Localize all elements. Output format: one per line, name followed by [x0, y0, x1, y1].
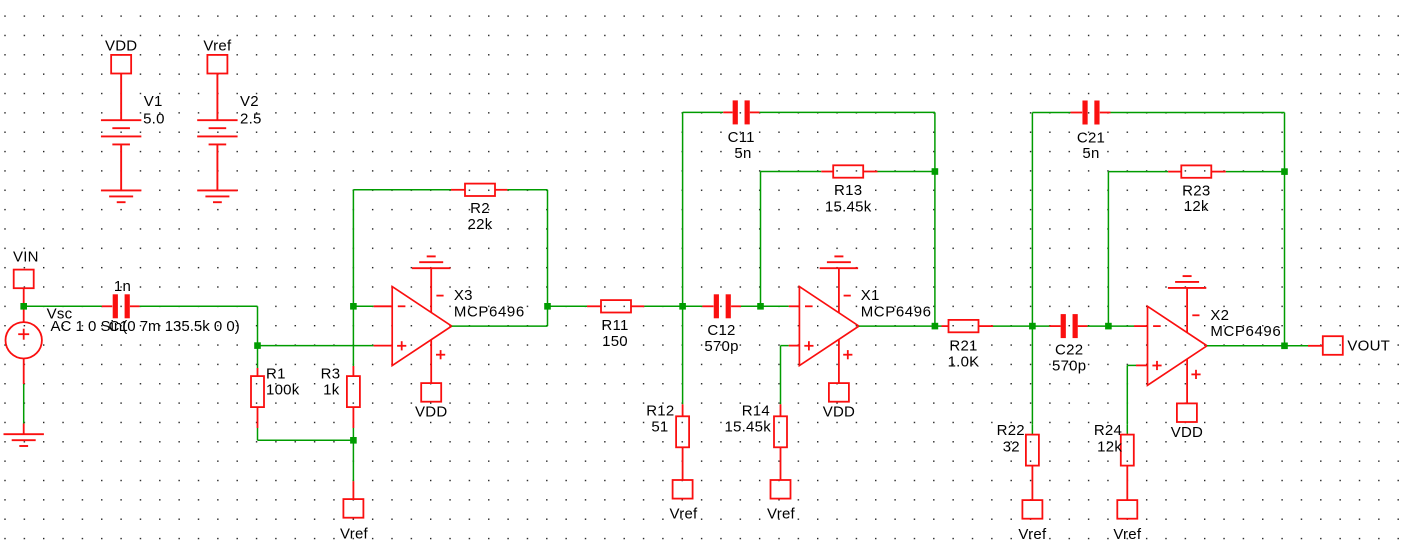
wire X2 plus elbow — [1127, 364, 1136, 366]
svg-text:C11: C11 — [728, 129, 755, 146]
wire R23 left lead — [1168, 171, 1181, 173]
wire R11 to C11 node — [644, 305, 702, 307]
capacitor C21 — [1082, 101, 1087, 125]
wire C11 top left — [683, 111, 724, 113]
wire R1 bottom pin — [257, 407, 259, 428]
wire C22 right lead — [1078, 325, 1088, 327]
wire C11 left lead — [723, 111, 732, 113]
svg-text:R23: R23 — [1182, 182, 1210, 199]
svg-text:R14: R14 — [742, 403, 770, 420]
svg-text:12k: 12k — [1184, 198, 1209, 215]
wire R12 top pin — [682, 404, 684, 416]
wire Vref port pin — [352, 481, 354, 499]
ground below Vsc — [4, 434, 44, 446]
svg-text:15.45k: 15.45k — [724, 419, 771, 436]
svg-text:C1: C1 — [109, 318, 129, 335]
wire X1 bottom supply pin — [838, 340, 840, 383]
svg-text:X1: X1 — [861, 287, 880, 304]
wire VIN node to C1 — [26, 305, 102, 307]
wire R3 bottom pin — [352, 407, 354, 428]
wire R2 left lead — [451, 189, 466, 191]
svg-text:C21: C21 — [1077, 129, 1105, 146]
op-amp X2 — [1148, 306, 1208, 385]
node C21 column junction — [1029, 323, 1036, 330]
wire feedback left vertical — [352, 190, 354, 306]
wire X1 output — [859, 325, 935, 327]
battery V2 — [197, 120, 237, 144]
port VDD at X2 — [1177, 403, 1197, 422]
wire X1 top supply pin — [838, 268, 840, 313]
wire R14 vertical — [780, 346, 782, 405]
wire R22 top pin — [1031, 425, 1033, 435]
wire R13 right lead — [863, 171, 877, 173]
X3 negative supply ground — [412, 256, 450, 268]
svg-text:R22: R22 — [997, 422, 1025, 439]
wire R3 top pin — [352, 366, 354, 376]
svg-text:Vref: Vref — [1113, 526, 1142, 543]
svg-text:570p: 570p — [1052, 358, 1086, 375]
wire R1 to bottom rail — [257, 428, 259, 440]
wire C21 right vertical — [1284, 113, 1286, 172]
plus mark X3 supply — [436, 350, 445, 359]
plus mark inside Vsc — [18, 329, 29, 340]
svg-text:51: 51 — [651, 419, 668, 436]
wire feedback top left — [353, 189, 451, 191]
svg-text:R21: R21 — [949, 337, 977, 354]
wire V2 battery to ground — [216, 144, 218, 190]
ground below V2 — [197, 190, 237, 202]
wire X3 top supply pin — [430, 268, 432, 312]
node X1 output junction — [932, 323, 939, 330]
node X2 output junction — [1281, 343, 1288, 350]
node bottom rail junction — [350, 437, 357, 444]
capacitor C11 — [733, 100, 738, 124]
svg-text:32: 32 — [1003, 438, 1020, 455]
plus mark X2 supply — [1191, 370, 1200, 379]
port Vref at R14 — [771, 480, 791, 499]
wire C21 left vertical — [1031, 113, 1033, 327]
port Vref (reference rail, V2) — [207, 55, 227, 74]
wire C21 node down to R22 — [1031, 326, 1033, 425]
capacitor C22 — [1061, 314, 1066, 338]
port VOUT — [1323, 336, 1343, 355]
port VDD (supply rail, V1) — [111, 55, 131, 74]
minus mark X1 inverting input — [805, 305, 813, 307]
port VDD at X3 — [421, 383, 441, 402]
wire R24 bottom pin — [1126, 466, 1128, 501]
svg-text:R1: R1 — [266, 366, 286, 383]
svg-text:2.5: 2.5 — [240, 110, 262, 127]
wire feedback right vertical X1 — [934, 172, 936, 327]
svg-text:VDD: VDD — [415, 404, 447, 421]
wire R24 top pin — [1126, 425, 1128, 435]
wire X1 plus elbow — [781, 345, 789, 347]
svg-text:MCP6496: MCP6496 — [1210, 323, 1281, 340]
svg-text:MCP6496: MCP6496 — [861, 304, 932, 321]
wire R2 right lead — [495, 189, 508, 191]
X2 negative supply ground — [1168, 276, 1206, 288]
wire X2 minus input pin — [1134, 325, 1148, 327]
svg-text:VDD: VDD — [1171, 424, 1203, 441]
minus mark X2 inverting input — [1153, 325, 1161, 327]
node R23 column junction — [1105, 323, 1112, 330]
wire R23 right horizontal — [1226, 171, 1285, 173]
resistor R11 — [601, 300, 631, 312]
port Vref (stage 1) — [343, 499, 363, 518]
node R13 column junction — [757, 303, 764, 310]
resistor R14 — [774, 416, 787, 447]
wire R13 left vertical — [760, 172, 762, 307]
capacitor C1 — [113, 294, 118, 318]
svg-text:R12: R12 — [646, 403, 674, 420]
wire R11 right lead — [631, 305, 644, 307]
resistor R23 — [1181, 165, 1211, 177]
port VIN — [14, 270, 34, 289]
wire V2 port to battery — [216, 74, 218, 121]
wire C11 right lead — [750, 111, 760, 113]
svg-text:VOUT: VOUT — [1347, 337, 1390, 354]
svg-text:R2: R2 — [470, 200, 490, 217]
capacitor C12 — [714, 294, 719, 318]
node R23 C21 junction — [1281, 168, 1288, 175]
wire feedback right vertical X2 — [1284, 172, 1286, 346]
wire R24 vertical — [1126, 365, 1128, 424]
wire feedback right vertical — [547, 190, 549, 306]
plus mark X1 supply — [843, 350, 852, 359]
wire feedback top right — [507, 189, 547, 191]
X1 negative supply ground — [820, 256, 858, 268]
wire VOUT port pin — [1308, 345, 1323, 347]
minus mark X3 inverting input — [398, 305, 406, 307]
wire R14 top pin — [780, 404, 782, 416]
wire R23 left vertical — [1107, 172, 1109, 327]
svg-text:AC 1 0 Sin(0 7m 135.5k 0 0): AC 1 0 Sin(0 7m 135.5k 0 0) — [51, 318, 240, 335]
svg-text:R11: R11 — [601, 317, 628, 334]
wire C22 to R23 node — [1088, 325, 1135, 327]
wire X2 output — [1207, 345, 1285, 347]
svg-text:1.0K: 1.0K — [948, 353, 980, 370]
svg-text:22k: 22k — [468, 216, 493, 233]
wire X2 top supply pin — [1186, 288, 1188, 333]
wire C1 left lead — [102, 305, 113, 307]
svg-text:R24: R24 — [1094, 422, 1122, 439]
node signal junction — [254, 342, 261, 349]
wire bottom rail — [258, 439, 354, 441]
wire R22 bottom pin — [1031, 466, 1033, 501]
wire rail down to Vref port — [352, 440, 354, 481]
op-amp X3 — [392, 287, 452, 366]
wire X2 bottom supply pin — [1186, 360, 1188, 404]
wire C1 to corner — [140, 305, 258, 307]
svg-text:5.0: 5.0 — [143, 110, 165, 127]
wire X3 bottom supply pin — [430, 340, 432, 383]
wire C21 right lead — [1100, 112, 1111, 114]
svg-text:1n: 1n — [114, 278, 131, 295]
svg-text:100k: 100k — [266, 382, 300, 399]
wire C11 left vertical — [682, 112, 684, 306]
wire Vsc to ground — [23, 384, 25, 424]
wire C12 to R13 node — [741, 305, 789, 307]
wire R21 left lead — [942, 325, 949, 327]
svg-text:Vref: Vref — [203, 38, 232, 55]
svg-text:VIN: VIN — [13, 249, 39, 266]
wire R12 bottom pin — [682, 447, 684, 480]
wire V1 port to battery — [120, 74, 122, 121]
wire R23 right lead — [1211, 171, 1226, 173]
resistor R2 — [465, 184, 495, 196]
wire minus node to X3 — [353, 305, 373, 307]
battery V1 — [101, 120, 141, 144]
wire C11 right vertical — [934, 112, 936, 171]
resistor R12 — [676, 416, 689, 447]
wire X3 plus input pin — [374, 345, 393, 347]
node X3 output junction — [544, 303, 551, 310]
wire C22 left lead — [1050, 325, 1061, 327]
wire X2 plus input pin — [1136, 364, 1148, 366]
resistor R13 — [833, 165, 863, 177]
node C11 column junction — [679, 303, 686, 310]
svg-text:X3: X3 — [454, 287, 473, 304]
svg-text:R3: R3 — [321, 366, 341, 383]
svg-text:12k: 12k — [1097, 438, 1122, 455]
wire X3 output up — [547, 306, 549, 326]
svg-text:1k: 1k — [323, 382, 340, 399]
wire corner down to signal node — [257, 306, 259, 345]
minus mark X3 supply — [436, 295, 443, 297]
wire X1 minus input pin — [789, 305, 800, 307]
svg-text:X2: X2 — [1210, 307, 1229, 324]
resistor R3 — [347, 376, 360, 407]
svg-text:Vref: Vref — [767, 506, 796, 523]
wire VIN port to source — [23, 288, 25, 322]
ground below V1 — [101, 190, 141, 202]
wire R21 to C21 node — [993, 325, 1050, 327]
port Vref at R22 — [1022, 500, 1042, 519]
plus mark X1 non-inverting input — [804, 341, 813, 350]
resistor R21 — [949, 320, 979, 332]
wire C21 top left — [1032, 112, 1070, 114]
resistor R24 — [1121, 435, 1134, 466]
plus mark X3 non-inverting input — [397, 341, 406, 350]
svg-text:VDD: VDD — [105, 38, 137, 55]
svg-text:R13: R13 — [834, 182, 862, 199]
svg-text:VDD: VDD — [823, 404, 855, 421]
node X3 minus junction — [350, 303, 357, 310]
wire C12 left lead — [702, 305, 713, 307]
minus mark X1 supply — [844, 295, 851, 297]
wire C1 right lead — [130, 305, 140, 307]
resistor R22 — [1026, 435, 1039, 466]
wire minus node down to R3 — [352, 306, 354, 366]
svg-text:Vref: Vref — [670, 506, 699, 523]
wire Vsc bottom pin — [23, 359, 25, 385]
wire R23 left horizontal — [1108, 171, 1168, 173]
port Vref at R24 — [1117, 500, 1137, 519]
wire X3 output — [452, 325, 548, 327]
wire R11 left lead — [587, 305, 601, 307]
port VDD at X1 — [829, 383, 849, 402]
wire R14 bottom pin — [780, 447, 782, 480]
voltage source Vsc — [6, 322, 42, 358]
svg-text:C12: C12 — [707, 322, 735, 339]
svg-text:150: 150 — [602, 333, 628, 350]
svg-text:C22: C22 — [1055, 342, 1083, 359]
svg-text:V1: V1 — [144, 93, 163, 110]
wire C11 top right — [760, 111, 935, 113]
wire C11 node down to R12 — [682, 306, 684, 404]
resistor R1 — [251, 376, 264, 407]
port Vref at R12 — [673, 480, 693, 499]
wire R1 top pin — [257, 368, 259, 376]
svg-text:V2: V2 — [240, 93, 259, 110]
node VIN junction — [20, 303, 27, 310]
wire signal node down to R1 — [257, 346, 259, 368]
wire C12 right lead — [731, 305, 741, 307]
svg-text:Vref: Vref — [1018, 526, 1047, 543]
wire R3 to bottom rail — [352, 428, 354, 440]
op-amp X1 — [799, 287, 859, 366]
wire output to VOUT — [1285, 345, 1309, 347]
node R13 C11 junction — [932, 168, 939, 175]
svg-text:Vref: Vref — [340, 526, 369, 543]
wire X3 minus input pin — [374, 305, 393, 307]
wire ground pin — [23, 424, 25, 435]
wire output to R21 — [935, 325, 942, 327]
wire X1 plus input pin — [789, 345, 800, 347]
svg-text:MCP6496: MCP6496 — [454, 304, 525, 321]
svg-text:570p: 570p — [704, 338, 738, 355]
wire C21 left lead — [1071, 112, 1083, 114]
svg-text:15.45k: 15.45k — [825, 198, 872, 215]
wire R13 right horizontal — [878, 171, 935, 173]
wire R21 right lead — [979, 325, 993, 327]
wire C21 top right — [1111, 112, 1285, 114]
plus mark X2 non-inverting input — [1152, 361, 1161, 370]
wire V1 battery to ground — [120, 144, 122, 190]
wire R13 left horizontal — [761, 171, 822, 173]
svg-text:5n: 5n — [734, 145, 751, 162]
svg-text:5n: 5n — [1082, 145, 1099, 162]
minus mark X2 supply — [1192, 314, 1199, 316]
wire R13 left lead — [821, 171, 833, 173]
wire signal node to X3 plus — [258, 345, 374, 347]
wire output to R11 — [548, 305, 588, 307]
